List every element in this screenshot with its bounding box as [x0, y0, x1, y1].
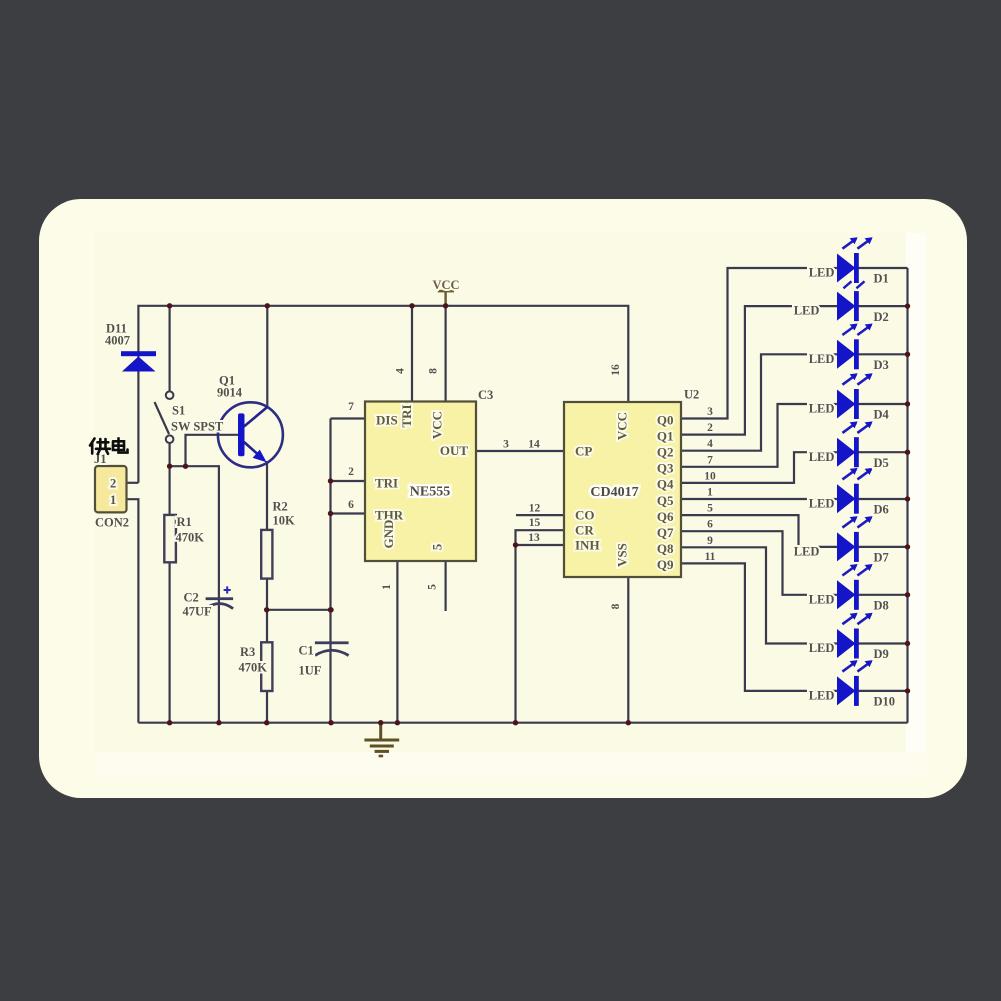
- svg-text:LED: LED: [809, 496, 835, 510]
- svg-text:3: 3: [503, 439, 509, 451]
- svg-text:9014: 9014: [217, 386, 243, 400]
- svg-text:13: 13: [528, 532, 540, 544]
- svg-text:D4: D4: [874, 408, 890, 422]
- svg-text:47UF: 47UF: [183, 605, 213, 619]
- svg-text:GND: GND: [381, 520, 396, 549]
- svg-text:Q9: Q9: [657, 557, 674, 572]
- svg-text:D9: D9: [874, 647, 889, 661]
- svg-text:3: 3: [707, 406, 713, 418]
- svg-text:5: 5: [430, 543, 445, 550]
- svg-text:DIS: DIS: [376, 413, 398, 428]
- svg-text:D2: D2: [874, 310, 889, 324]
- svg-text:1UF: 1UF: [299, 664, 322, 678]
- svg-text:6: 6: [707, 519, 713, 531]
- svg-text:D8: D8: [874, 599, 889, 613]
- svg-text:8: 8: [428, 368, 440, 374]
- svg-text:LED: LED: [809, 592, 835, 606]
- svg-text:D5: D5: [874, 456, 889, 470]
- svg-text:CP: CP: [575, 444, 592, 459]
- svg-text:Q3: Q3: [657, 461, 674, 476]
- svg-text:OUT: OUT: [440, 443, 469, 458]
- svg-text:14: 14: [528, 439, 540, 451]
- svg-text:LED: LED: [809, 402, 835, 416]
- svg-text:1: 1: [110, 493, 116, 507]
- svg-text:VCC: VCC: [430, 411, 445, 439]
- svg-text:5: 5: [427, 584, 439, 590]
- svg-text:D10: D10: [874, 695, 896, 709]
- svg-text:Q0: Q0: [657, 412, 674, 427]
- svg-text:9: 9: [707, 535, 713, 547]
- svg-text:4: 4: [707, 438, 713, 450]
- svg-text:TRI: TRI: [399, 404, 414, 427]
- svg-text:VCC: VCC: [615, 412, 630, 440]
- svg-text:6: 6: [348, 499, 354, 511]
- svg-text:470K: 470K: [176, 531, 205, 545]
- svg-text:Q7: Q7: [657, 525, 674, 540]
- svg-text:11: 11: [705, 551, 716, 563]
- svg-text:D7: D7: [874, 551, 889, 565]
- svg-text:NE555: NE555: [410, 485, 450, 500]
- svg-text:Q4: Q4: [657, 477, 674, 492]
- svg-text:LED: LED: [809, 641, 835, 655]
- svg-text:R2: R2: [273, 500, 288, 514]
- svg-text:Q2: Q2: [657, 445, 674, 460]
- svg-text:SW SPST: SW SPST: [171, 420, 224, 434]
- svg-text:CR: CR: [575, 523, 594, 538]
- svg-text:C2: C2: [184, 591, 199, 605]
- svg-text:J1: J1: [94, 452, 107, 466]
- svg-text:LED: LED: [809, 450, 835, 464]
- svg-text:7: 7: [348, 401, 354, 413]
- svg-text:LED: LED: [809, 689, 835, 703]
- svg-text:15: 15: [529, 517, 541, 529]
- svg-text:U2: U2: [684, 388, 699, 402]
- svg-text:CD4017: CD4017: [590, 485, 638, 500]
- svg-text:8: 8: [610, 603, 622, 609]
- svg-text:VCC: VCC: [433, 278, 460, 292]
- svg-text:R1: R1: [177, 515, 192, 529]
- svg-text:1: 1: [381, 584, 393, 590]
- svg-text:C3: C3: [478, 388, 493, 402]
- svg-text:Q6: Q6: [657, 509, 674, 524]
- svg-text:S1: S1: [172, 404, 185, 418]
- svg-text:2: 2: [707, 422, 713, 434]
- svg-text:R3: R3: [240, 645, 255, 659]
- svg-text:4: 4: [395, 368, 407, 374]
- svg-text:2: 2: [348, 466, 354, 478]
- svg-text:2: 2: [110, 477, 116, 491]
- svg-text:16: 16: [610, 364, 622, 376]
- svg-text:D3: D3: [874, 358, 889, 372]
- svg-text:12: 12: [529, 503, 541, 515]
- svg-text:7: 7: [707, 454, 713, 466]
- svg-text:LED: LED: [809, 266, 835, 280]
- svg-text:5: 5: [707, 503, 713, 515]
- svg-text:VSS: VSS: [615, 543, 630, 567]
- svg-text:D6: D6: [874, 502, 889, 516]
- svg-text:10: 10: [704, 470, 716, 482]
- svg-text:1: 1: [707, 487, 713, 499]
- svg-text:TRI: TRI: [375, 476, 398, 491]
- svg-text:C1: C1: [299, 644, 314, 658]
- svg-text:10K: 10K: [273, 514, 296, 528]
- svg-text:LED: LED: [809, 352, 835, 366]
- svg-text:Q1: Q1: [657, 428, 674, 443]
- svg-text:D1: D1: [874, 272, 889, 286]
- svg-text:470K: 470K: [239, 661, 268, 675]
- svg-text:CO: CO: [575, 508, 595, 523]
- svg-text:LED: LED: [794, 304, 820, 318]
- svg-text:Q5: Q5: [657, 493, 674, 508]
- svg-text:INH: INH: [575, 538, 600, 553]
- svg-text:CON2: CON2: [95, 516, 129, 530]
- svg-text:4007: 4007: [105, 334, 130, 348]
- svg-text:LED: LED: [794, 545, 820, 559]
- svg-text:Q8: Q8: [657, 541, 674, 556]
